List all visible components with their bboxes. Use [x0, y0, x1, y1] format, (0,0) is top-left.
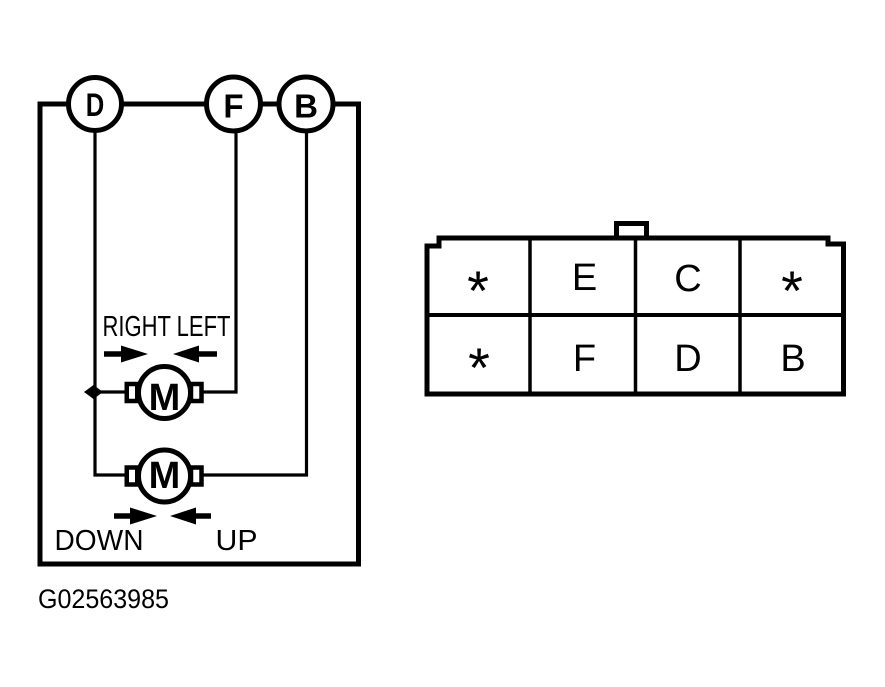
- svg-text:C: C: [674, 258, 701, 300]
- svg-text:RIGHT LEFT: RIGHT LEFT: [103, 311, 231, 343]
- connector grid: vertical divider 3: [738, 238, 742, 394]
- svg-text:M: M: [149, 455, 181, 497]
- svg-text:D: D: [674, 338, 701, 380]
- arrow: right-pointing (RIGHT): [104, 346, 148, 363]
- svg-text:*: *: [468, 336, 490, 399]
- wire: top bus segment between terminal F and terminal B: [260, 102, 280, 107]
- motor M2 (up/down mirror motor): [139, 450, 191, 502]
- svg-text:*: *: [467, 259, 489, 322]
- motor M1 left brush: [127, 384, 138, 401]
- arrow: left-pointing (LEFT): [173, 346, 217, 363]
- svg-text:B: B: [780, 338, 805, 380]
- svg-text:UP: UP: [216, 525, 258, 557]
- terminal D: [69, 78, 122, 131]
- svg-text:D: D: [86, 87, 105, 123]
- node: junction dot on D wire: [84, 385, 103, 399]
- svg-text:B: B: [294, 88, 318, 125]
- connector grid: row divider: [427, 313, 844, 317]
- wire: from terminal D down to junction: [93, 131, 96, 392]
- connector top locking tab: [617, 224, 647, 239]
- svg-text:*: *: [781, 259, 803, 322]
- svg-text:F: F: [573, 338, 596, 380]
- motor M1 (right/left mirror motor): [139, 367, 191, 420]
- motor M1 right brush: [191, 384, 202, 401]
- svg-text:DOWN: DOWN: [55, 525, 144, 557]
- terminal F: [207, 77, 261, 131]
- terminal B: [279, 77, 333, 131]
- arrow: left-pointing (UP): [170, 508, 211, 525]
- connector shell outline with stepped corners: [427, 238, 844, 394]
- wire: outer box of mirror motor circuit: [40, 104, 359, 564]
- motor M2 right brush: [191, 468, 202, 485]
- connector grid: vertical divider 2: [634, 238, 638, 394]
- wire: from terminal B down and left to motor M2 right brush: [202, 131, 307, 475]
- motor M2 left brush: [127, 468, 138, 485]
- arrow: right-pointing (DOWN): [114, 508, 157, 525]
- wire: junction to motor M1 left brush: [95, 390, 127, 393]
- wire: junction down and right to motor M2 left brush: [95, 392, 127, 475]
- svg-text:G02563985: G02563985: [38, 584, 169, 614]
- svg-text:M: M: [149, 377, 181, 419]
- svg-text:E: E: [572, 257, 597, 299]
- connector grid: vertical divider 1: [528, 238, 532, 394]
- wire: top bus segment between terminal D and terminal F: [121, 102, 207, 107]
- svg-text:F: F: [223, 88, 243, 125]
- wire: from terminal F down and left to motor M1 right brush: [202, 131, 236, 392]
